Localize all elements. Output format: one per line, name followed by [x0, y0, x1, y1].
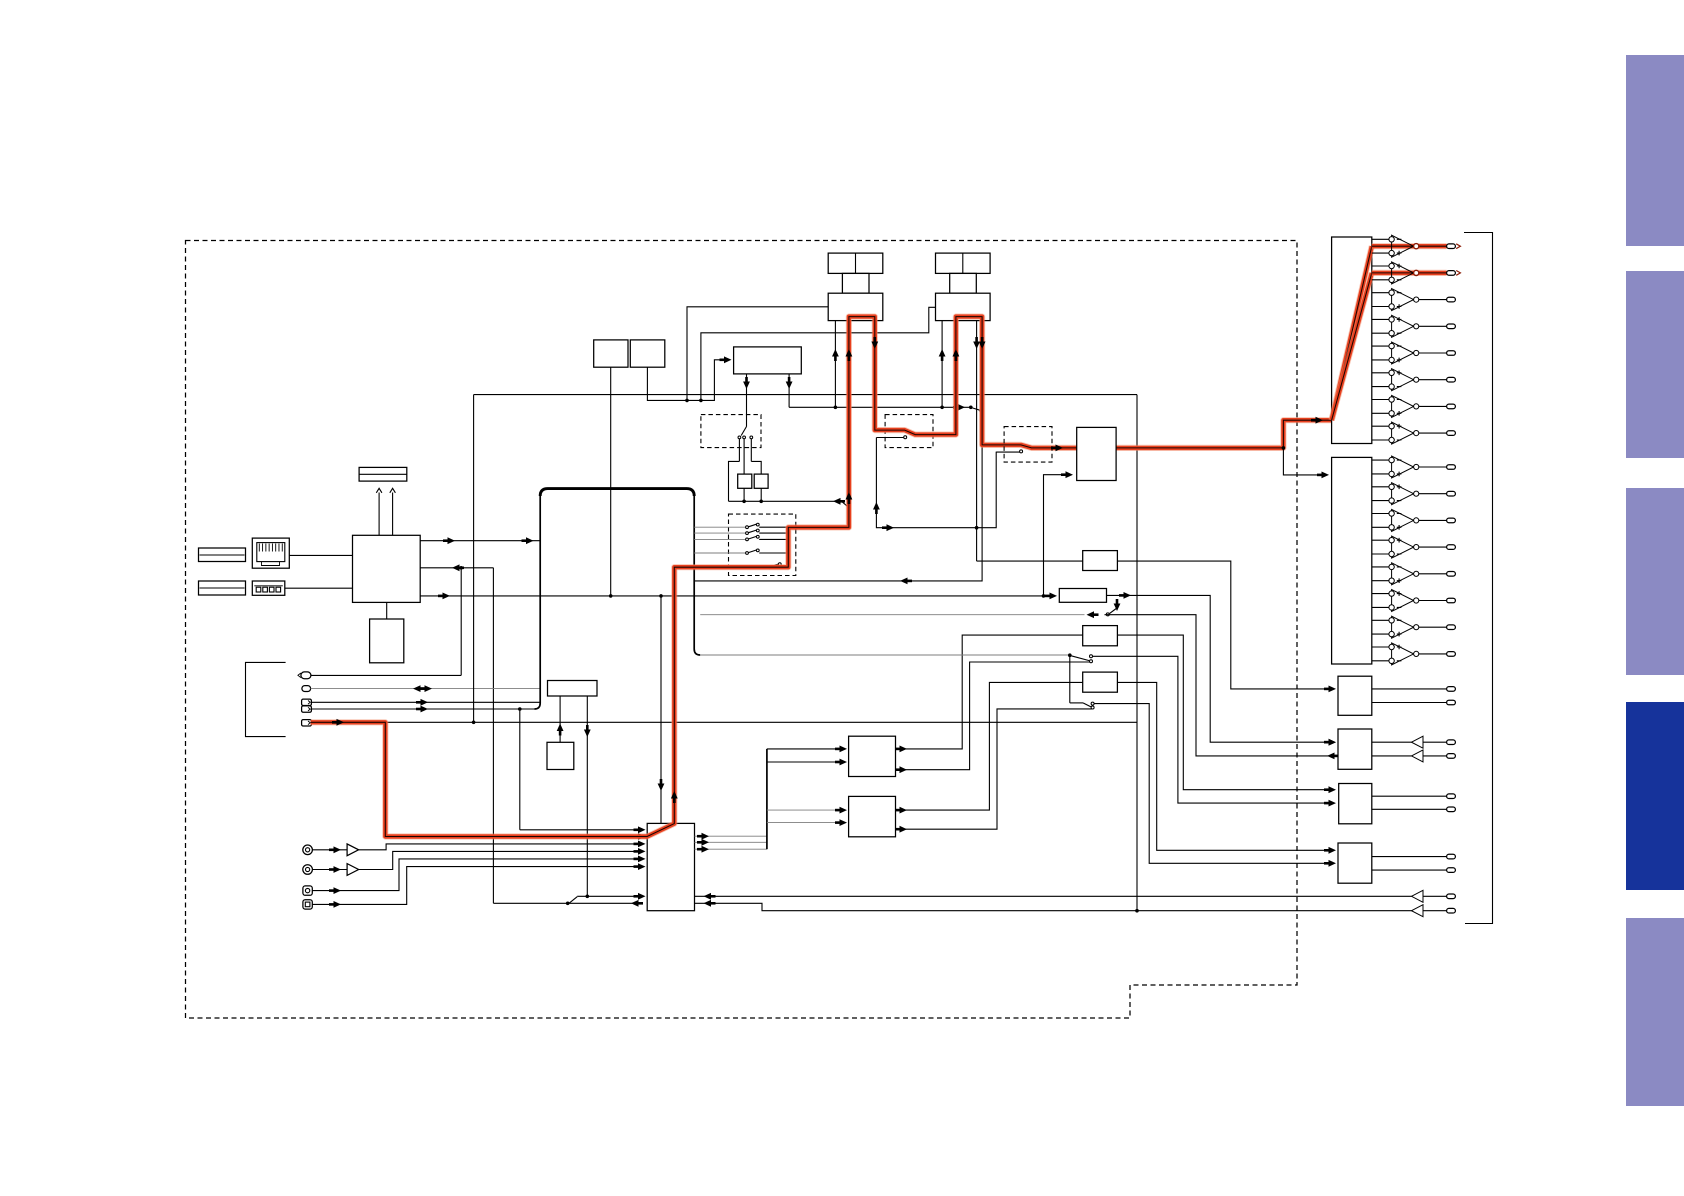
wire display pin 2 — [392, 493, 394, 536]
wire X1 pin — [743, 488, 745, 501]
wire box4 out 2 — [1372, 808, 1447, 810]
patch block — [1077, 427, 1116, 480]
DSP bus trunk left leg — [535, 492, 541, 709]
wire H out 2 — [896, 709, 1092, 829]
red DA feed diagonal 1 — [1332, 246, 1372, 420]
wire AD out 1 — [695, 835, 767, 837]
highlighted signal path (red) — [311, 317, 1332, 837]
output connector — [1447, 377, 1456, 382]
DA converter block 1 — [1332, 237, 1372, 444]
red DA feed diagonal 2 — [1332, 273, 1372, 420]
wire clock pin1 — [746, 374, 748, 427]
output amp row — [1372, 646, 1389, 648]
wire switch D through — [1092, 656, 1330, 803]
arrow red card2 out — [979, 342, 986, 350]
wire switch F through — [1094, 704, 1331, 864]
sidebar tab 1 — [1626, 55, 1684, 246]
option card slot 2 — [936, 253, 991, 273]
small box OSC B — [630, 340, 665, 367]
wire box5 out 1 — [1372, 856, 1447, 858]
wire AD ctrl down — [660, 596, 662, 824]
CPU block — [353, 535, 421, 602]
output group bracket — [1464, 233, 1493, 924]
output connector — [1447, 572, 1456, 577]
output amp row — [1372, 486, 1389, 488]
wire jack2 — [312, 869, 347, 871]
output connector — [1447, 404, 1456, 409]
bus vertical SRC feed — [766, 749, 768, 849]
wire OSC A down — [610, 367, 612, 596]
wire serial vertical — [460, 568, 462, 676]
connector box5 2 — [1447, 868, 1456, 873]
sidebar tab 2 — [1626, 271, 1684, 458]
output amp row — [1372, 399, 1389, 401]
crystal X2 — [754, 474, 768, 488]
output connector — [1447, 491, 1456, 496]
output amp row — [1372, 238, 1389, 240]
sidebar tab 3 — [1626, 488, 1684, 675]
wire clock select bus — [789, 406, 971, 408]
output amp row — [1372, 593, 1389, 595]
wire SRC G in 1 — [767, 748, 842, 750]
wire 2TR in upper — [695, 895, 1412, 897]
interface box A — [1083, 551, 1118, 571]
connector MIDI OUT — [302, 699, 312, 705]
wire CPU serial return — [420, 567, 493, 569]
interface box E — [1083, 672, 1118, 692]
wire OSC B to clock dist — [647, 360, 726, 401]
switch clock source — [741, 427, 746, 436]
output connector — [1447, 625, 1456, 630]
LCD display — [359, 467, 407, 481]
wire bus horizontal top — [474, 394, 1137, 396]
digital out box 5 — [1338, 843, 1372, 883]
wire trunk branch 4 — [694, 552, 745, 554]
wire box5 out 2 — [1372, 869, 1447, 871]
dashed clock source box — [701, 415, 761, 448]
sidebar tab 4 (active) — [1626, 702, 1684, 890]
DA converter block 2 — [1332, 457, 1372, 664]
arrow red rise to card1 — [846, 492, 853, 500]
wire box C out — [1117, 635, 1330, 790]
digital out box 2 — [1338, 676, 1372, 715]
wire DA2 feed — [1283, 448, 1326, 475]
connector HOST — [301, 672, 311, 679]
phones jack 1 — [303, 845, 313, 855]
switch card2 clock — [972, 408, 980, 410]
memory block below CPU — [370, 619, 404, 663]
switch card2 alt contact stub — [996, 451, 1019, 453]
wire xtal staple left — [729, 461, 740, 501]
wire xtal feed 3 — [750, 439, 752, 462]
USB connector — [252, 581, 284, 595]
wire trunk branch 1 — [694, 526, 745, 528]
wire SRC H in 2 — [767, 822, 842, 824]
output amp row — [1372, 619, 1389, 621]
wire G out 2 — [896, 662, 1090, 770]
AD converter block — [647, 823, 694, 910]
wire meter select — [586, 696, 588, 896]
output connector — [1447, 431, 1456, 436]
2TR analog in buffer 1 — [1412, 890, 1424, 902]
SRC block H — [849, 796, 896, 836]
output connector — [1447, 297, 1456, 302]
switch D — [1068, 653, 1072, 657]
wire xtal feed 1 — [738, 439, 740, 462]
connector box2 out1 — [1447, 687, 1456, 692]
wire CPU to memory — [386, 602, 388, 619]
wire box E out — [1117, 682, 1330, 850]
wire G out 1 — [896, 635, 1083, 749]
wire word clock long — [311, 721, 1137, 723]
switch 2TR monitor — [569, 897, 577, 904]
connector 2TR 2 — [1447, 908, 1456, 913]
dashed cascade switch box — [729, 514, 796, 575]
interface box C — [1083, 626, 1118, 646]
dashed cascade box 1 — [885, 415, 933, 448]
wire xtal bus — [729, 500, 842, 502]
output amp row — [1372, 539, 1389, 541]
wire trunk gray to switch B — [700, 614, 1084, 616]
phones jack 2 — [303, 865, 313, 875]
input jack 4 — [303, 900, 312, 909]
connector box4 2 — [1447, 807, 1456, 812]
wire card2 to box A — [977, 560, 1083, 562]
wire jack4 — [312, 867, 640, 905]
wire xtal staple right — [751, 461, 761, 474]
output connector — [1447, 324, 1456, 329]
wire card2 out pin — [976, 321, 978, 561]
wire vertical to 2TR — [492, 568, 494, 904]
SRC block G — [849, 736, 896, 776]
connector box4 1 — [1447, 794, 1456, 799]
wire to HOST connector — [311, 674, 461, 676]
arrow on red at word clock in — [337, 719, 345, 726]
arrow red into patch — [1056, 445, 1064, 452]
wire 2TR in lower — [695, 903, 1412, 910]
wire CPU to DSP bus — [420, 540, 540, 542]
output connector — [1447, 351, 1456, 356]
arrow red card2 in — [953, 349, 960, 357]
output connector — [1447, 598, 1456, 603]
wire X2 pin — [760, 488, 762, 501]
output amp row — [1372, 425, 1389, 427]
small box OSC A — [594, 340, 628, 367]
output connector — [1447, 465, 1456, 470]
connector box3 2 — [1447, 754, 1456, 759]
wire display pin 1 — [378, 493, 380, 536]
wire box3 line 1 — [1372, 741, 1412, 743]
wire bus vertical right — [1136, 395, 1138, 911]
wire 2TR to CPU — [493, 902, 640, 904]
connector box5 1 — [1447, 854, 1456, 859]
dashed cascade box 2 — [1004, 427, 1052, 463]
output amp row — [1372, 513, 1389, 515]
interface box B — [1059, 589, 1106, 603]
connector WORD CLOCK IN — [302, 720, 312, 726]
2TR analog in buffer 2 — [1412, 905, 1424, 917]
wire xtal feed 2 — [743, 439, 745, 474]
meter bar — [548, 681, 598, 697]
wire MIDI IN branch down — [519, 709, 521, 830]
output amp row — [1372, 566, 1389, 568]
clock distributor block — [734, 347, 802, 374]
bracket remote group — [246, 662, 286, 736]
terminal block 2 — [199, 581, 246, 595]
switch F — [1069, 655, 1071, 703]
wire USB to CPU — [285, 587, 353, 589]
wire meter to panel — [559, 696, 561, 742]
connector MIDI IN — [302, 706, 312, 712]
output connector — [1447, 518, 1456, 523]
switch box B monitor — [1116, 602, 1118, 607]
option card slot 1 — [828, 253, 883, 273]
arrow red card1 in — [846, 349, 853, 357]
wire CPU data bus — [420, 595, 1050, 597]
connector MIDI THRU — [302, 686, 311, 692]
sidebar tab 5 — [1626, 918, 1684, 1106]
output amp row — [1372, 459, 1389, 461]
outer dashed boundary — [186, 241, 1298, 1019]
wire trunk branch 3 — [694, 538, 745, 540]
wire card2 return to trunk — [694, 445, 982, 581]
buffer amp jack1 — [347, 844, 359, 856]
switch on red row — [768, 566, 771, 569]
wire box2 out 1 — [1372, 688, 1447, 690]
digital io box 3 — [1338, 729, 1372, 769]
wire MIDI OUT — [311, 701, 540, 703]
crystal X1 — [738, 474, 752, 488]
output amp row — [1372, 265, 1389, 267]
wire box B out — [1107, 595, 1331, 742]
wire jack1 — [312, 849, 347, 851]
arrow red into DA1 — [1316, 417, 1324, 424]
wire bypass — [876, 438, 996, 528]
wire jack3 — [312, 859, 640, 891]
wire box A out — [1117, 561, 1330, 689]
wire RJ45 to CPU — [289, 554, 352, 556]
wire bus vertical left — [473, 395, 475, 723]
wire box3 line 2 — [1372, 755, 1412, 757]
wire H out 1 — [896, 682, 1083, 810]
wire clock to card2 — [701, 307, 936, 400]
wire patch input 2 — [1044, 475, 1067, 596]
arrow red rise from AD — [671, 791, 678, 799]
connector 2TR 1 — [1447, 894, 1456, 899]
output amp row — [1372, 345, 1389, 347]
wire clock pin2 — [788, 374, 790, 407]
panel block — [547, 742, 574, 769]
output connector — [1447, 652, 1456, 657]
arrow red card1 out — [871, 342, 878, 350]
switch card1 alt contact — [876, 437, 903, 439]
switch xtal to card clock — [842, 501, 849, 507]
output amp row — [1372, 372, 1389, 374]
connector box3 1 — [1447, 740, 1456, 745]
DSP bus trunk right leg — [694, 492, 700, 655]
wire MIDI bidirectional — [311, 688, 541, 690]
wire MIDI IN — [311, 708, 536, 710]
input jack 3 — [303, 886, 312, 895]
output connector — [1447, 545, 1456, 550]
output amp row — [1372, 292, 1389, 294]
wire clock to card1 — [687, 307, 828, 401]
wire AD out 3 — [695, 848, 767, 850]
output connector — [1447, 244, 1456, 249]
output amp row — [1372, 318, 1389, 320]
buffer amp jack2 — [347, 864, 359, 876]
wire SRC G in 2 — [767, 761, 842, 763]
wire card1 ctrl pin — [834, 321, 836, 408]
wire card2 ctrl pin — [941, 321, 943, 408]
terminal block 1 — [199, 548, 246, 562]
wire box2 out 2 — [1372, 702, 1447, 704]
wire SRC H in 1 — [767, 809, 842, 811]
RJ45 connector — [252, 538, 289, 568]
digital out box 4 — [1339, 784, 1372, 824]
wire trunk branch 2 — [694, 532, 745, 534]
connector box2 out2 — [1447, 700, 1456, 705]
wire box3 return — [1105, 615, 1331, 756]
wire box4 out 1 — [1372, 795, 1447, 797]
DSP bus trunk top bar — [540, 489, 694, 496]
wire trunk gray to switch D — [700, 654, 1068, 656]
output connector — [1447, 271, 1456, 276]
wire AD out 2 — [695, 841, 767, 843]
